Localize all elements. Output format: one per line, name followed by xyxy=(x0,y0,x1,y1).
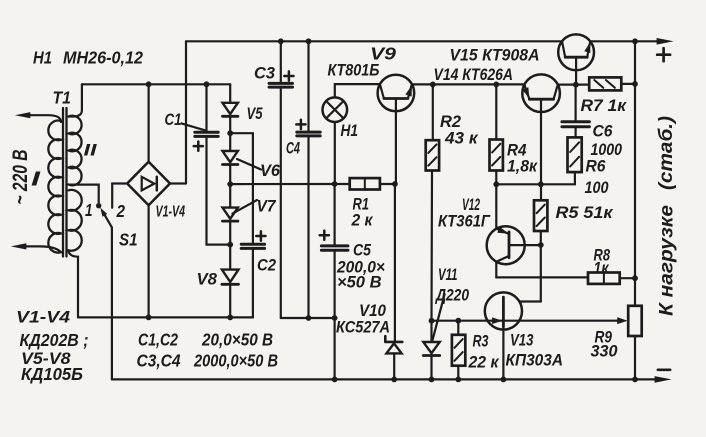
svg-text:R5 51к: R5 51к xyxy=(556,203,614,222)
+ output label xyxy=(657,48,670,61)
node switch contact 1 xyxy=(96,203,101,208)
wire C5 top lead xyxy=(334,184,336,246)
wire V13 gate line xyxy=(432,320,619,322)
svg-text:R6: R6 xyxy=(586,157,606,176)
switch S1 arm arrowhead xyxy=(100,208,107,217)
node R1 right / V9 base junction xyxy=(392,181,398,187)
svg-text:R3: R3 xyxy=(473,332,489,351)
wire mains input top lead xyxy=(29,115,61,122)
svg-text:С4: С4 xyxy=(286,139,300,158)
wire H1 top to V9 collector xyxy=(335,84,380,97)
svg-text:КД105Б: КД105Б xyxy=(21,364,83,384)
wire C6 to R6 xyxy=(574,127,576,138)
node V12 base / R5 / V13 drain xyxy=(538,242,544,248)
svg-text:V1-V4: V1-V4 xyxy=(156,204,186,221)
svg-text:КТ801Б: КТ801Б xyxy=(328,61,380,80)
wire V7 anode xyxy=(229,184,231,208)
node R8 / output column xyxy=(632,275,638,281)
switch S1 arm xyxy=(104,213,112,227)
capacitor C1 xyxy=(195,132,218,136)
wire AC line from secondary to V5 string xyxy=(82,83,230,85)
zener V10 KS527A xyxy=(385,336,402,342)
wire bridge bottom corner to negative line xyxy=(148,205,150,317)
wire C1 bottom lead xyxy=(207,136,231,244)
svg-text:1: 1 xyxy=(85,200,93,220)
node V7-V8 junction / C1 return xyxy=(227,242,233,248)
svg-text:2: 2 xyxy=(116,201,126,221)
wire bottom negative rail xyxy=(112,378,657,380)
transformer T1 secondary winding II lower xyxy=(69,190,82,251)
node bottom rail V13 xyxy=(501,377,507,383)
wire C5 riser to negative rail xyxy=(334,318,336,379)
svg-text:V15 КТ908А: V15 КТ908А xyxy=(450,46,540,65)
wire secondary bottom lead xyxy=(69,250,79,317)
wire V13 source to negative rail xyxy=(502,327,504,380)
svg-text:С2: С2 xyxy=(257,256,276,275)
wire C5 bottom lead xyxy=(334,250,336,318)
wire V12 collector down xyxy=(495,262,497,278)
wire R4 top lead xyxy=(495,84,497,139)
transformer T1 secondary winding II upper xyxy=(69,116,82,186)
bridge rectifier V1-V4 diamond xyxy=(127,162,170,206)
svg-text:V7: V7 xyxy=(257,197,277,216)
V7 label leader xyxy=(233,200,258,214)
D220 label leader xyxy=(433,294,445,340)
- output label xyxy=(658,368,670,371)
wire R6 bottom to base node line xyxy=(496,172,575,184)
node negative line / bridge bottom xyxy=(146,315,152,321)
transistor V14 KT626A xyxy=(522,74,560,112)
svg-text:V5: V5 xyxy=(247,104,263,123)
node R7 / output column xyxy=(632,81,638,87)
svg-text:(стаб.): (стаб.) xyxy=(655,116,677,190)
node V6-V7 junction xyxy=(227,181,233,187)
wire V6 anode xyxy=(229,133,231,151)
svg-text:МН26-0,12: МН26-0,12 xyxy=(63,48,143,68)
wire switch S1 common down to negative rail xyxy=(111,227,113,379)
V6 label leader xyxy=(237,159,261,170)
svg-text:I: I xyxy=(31,169,41,191)
svg-text:V12: V12 xyxy=(462,195,480,214)
wire V13 drain riser xyxy=(540,245,542,302)
capacitor C6 xyxy=(562,122,590,127)
C1 label leader xyxy=(182,123,205,130)
svg-text:КТ361Г: КТ361Г xyxy=(438,213,491,231)
wire V5 cathode to node xyxy=(229,116,231,133)
svg-text:×50 В: ×50 В xyxy=(337,274,382,292)
svg-text:С5: С5 xyxy=(353,241,371,260)
wire H1 bottom lead xyxy=(334,122,336,184)
svg-text:V1-V4: V1-V4 xyxy=(16,308,71,327)
diode V6 xyxy=(223,151,238,162)
svg-text:20,0×50 В: 20,0×50 В xyxy=(201,330,273,350)
wire V7 cathode to node xyxy=(229,221,231,245)
diode V11 D220 xyxy=(423,342,439,353)
wire R7 right lead xyxy=(621,83,635,85)
svg-text:~ 220 В: ~ 220 В xyxy=(9,150,32,205)
node bottom rail V10 xyxy=(391,377,397,383)
transistor V9 KT801B xyxy=(378,75,415,112)
wire output column xyxy=(634,41,636,306)
diode V8 xyxy=(222,270,239,282)
wire R2 top lead xyxy=(432,84,434,140)
wire V11 cathode to negative rail xyxy=(430,356,432,380)
wire V6-V7 junction to R1 line xyxy=(230,183,350,185)
svg-text:2 к: 2 к xyxy=(351,211,374,230)
svg-text:Д220: Д220 xyxy=(434,287,469,305)
svg-text:43 к: 43 к xyxy=(444,129,479,148)
resistor R7 xyxy=(589,77,621,90)
svg-text:V13: V13 xyxy=(510,331,534,350)
transformer T1 primary winding I xyxy=(48,121,61,253)
R9 wiper arrowhead xyxy=(617,317,628,324)
wire R2 bottom long lead xyxy=(430,171,433,321)
wire V10 anode to negative rail xyxy=(393,353,395,379)
node AC line / bridge top xyxy=(146,81,152,87)
svg-text:С1: С1 xyxy=(165,110,182,129)
C2 plus sign xyxy=(256,231,265,240)
wire R4 bottom lead xyxy=(495,171,497,185)
svg-text:С3: С3 xyxy=(254,64,276,83)
wire R9 bottom lead xyxy=(634,336,636,379)
svg-text:22 к: 22 к xyxy=(468,353,500,372)
svg-text:330: 330 xyxy=(591,343,619,361)
wire secondary top lead to AC line xyxy=(69,84,82,116)
capacitor C4 xyxy=(297,132,320,136)
wire C4 top lead xyxy=(307,41,309,132)
wire V15 base down to node xyxy=(575,57,577,84)
node AC line / C1 top xyxy=(204,81,210,87)
resistor R6 xyxy=(568,137,582,172)
svg-text:Н1: Н1 xyxy=(341,121,359,140)
svg-text:1к: 1к xyxy=(594,259,610,278)
svg-text:100: 100 xyxy=(585,179,610,197)
wire V14 collector to V15 base node xyxy=(558,83,589,85)
svg-text:С6: С6 xyxy=(593,122,613,141)
wire V8 anode xyxy=(229,245,231,270)
svg-text:V14 КТ626А: V14 КТ626А xyxy=(434,65,514,84)
wire V5 anode xyxy=(229,84,231,103)
diode V5 xyxy=(223,103,238,114)
wire V6 cathode to node xyxy=(229,165,231,185)
wire C4 bottom lead xyxy=(307,136,309,318)
wire filter ground segment xyxy=(281,317,335,319)
C5 plus sign xyxy=(320,231,329,240)
wire bridge right corner to top rail riser xyxy=(170,41,186,183)
svg-text:КП303А: КП303А xyxy=(506,352,564,370)
wire V10 cathode lead xyxy=(394,184,396,342)
node top rail C4 xyxy=(306,38,312,44)
diode V7 xyxy=(223,208,238,219)
wire C6 top lead xyxy=(574,85,576,122)
wire C3 top lead xyxy=(280,41,282,83)
svg-text:Н1: Н1 xyxy=(33,48,52,68)
wire secondary tap to contact 1 xyxy=(70,185,99,203)
node V13 gate / R2 / V11 xyxy=(429,318,435,324)
wire top positive rail xyxy=(186,40,562,42)
wire R5 bottom lead xyxy=(540,231,542,245)
svg-text:1,8к: 1,8к xyxy=(507,157,538,176)
C1 plus sign xyxy=(194,142,203,151)
wire R1 right lead xyxy=(380,183,395,185)
svg-text:С1,С2: С1,С2 xyxy=(138,330,178,350)
wire mains input bottom lead xyxy=(25,246,61,252)
node top rail C3 xyxy=(278,38,284,44)
wire V12 base to node xyxy=(509,244,541,246)
wire V9 emitter line to V14 xyxy=(412,83,525,85)
mains top arrow xyxy=(15,112,30,118)
node ground segment C5 riser xyxy=(332,315,338,321)
transformer T1 core xyxy=(63,108,67,257)
node R4 / R5 line left xyxy=(493,181,499,187)
wire switch contact 2 to bridge left corner xyxy=(112,184,127,208)
capacitor C2 xyxy=(241,244,264,248)
wire V11 anode lead xyxy=(430,321,432,342)
node gate line R3 xyxy=(455,318,461,324)
resistor R8 xyxy=(588,273,620,284)
node H1/C5 junction xyxy=(332,181,338,187)
wire V9 base down to node xyxy=(395,99,397,185)
capacitor C3 xyxy=(269,83,292,87)
svg-text:2000,0×50 В: 2000,0×50 В xyxy=(193,351,278,371)
C3 plus sign xyxy=(284,71,293,80)
svg-text:Т1: Т1 xyxy=(53,88,72,108)
wire bridge top corner riser xyxy=(148,84,150,162)
svg-text:V8: V8 xyxy=(197,270,218,289)
resistor R3 xyxy=(452,335,465,366)
potentiometer R9 xyxy=(628,306,642,336)
wire R8 right lead xyxy=(620,277,635,279)
node emitter line R4 xyxy=(493,82,499,88)
svg-text:V6: V6 xyxy=(260,161,281,180)
wire C2 bottom lead xyxy=(252,248,254,317)
node + output junction xyxy=(632,38,638,44)
node emitter line R2 xyxy=(430,82,436,88)
wire C1 top lead xyxy=(205,84,207,132)
svg-text:С3,С4: С3,С4 xyxy=(137,351,181,371)
svg-text:II: II xyxy=(84,141,99,160)
svg-text:КД202В ;: КД202В ; xyxy=(20,330,89,350)
resistor R1 xyxy=(350,178,380,189)
resistor R5 xyxy=(534,200,547,231)
V13 gate arrowhead xyxy=(492,317,503,324)
lamp H1 xyxy=(323,97,348,122)
wire rectifier negative line xyxy=(78,316,253,318)
wire top rail V15 emitter to + terminal xyxy=(590,40,659,42)
node bottom rail V11 xyxy=(429,377,435,383)
node negative line / V8 cathode xyxy=(227,315,233,321)
mains bottom arrow xyxy=(11,243,26,249)
wire V13 drain horizontal xyxy=(503,300,540,302)
node V5-V6 junction xyxy=(227,130,233,136)
node R4 / R5 line mid xyxy=(538,181,544,187)
resistor R2 xyxy=(426,140,439,170)
wire V8 cathode to negative line xyxy=(229,285,231,318)
wire R3 top lead xyxy=(457,321,459,335)
node bottom rail R3 xyxy=(455,377,461,383)
svg-text:К нагрузке: К нагрузке xyxy=(656,205,678,316)
+ output arrow xyxy=(657,38,674,45)
- output arrow xyxy=(655,376,672,383)
svg-text:V10: V10 xyxy=(359,301,386,320)
wire C3 bottom lead xyxy=(280,87,282,318)
node V15 base / V14 / R7 / C6 xyxy=(573,82,579,88)
transistor V13 KP303A xyxy=(485,292,522,329)
node bottom rail R9 xyxy=(632,377,638,383)
wire V12 collector to R8 xyxy=(496,276,588,278)
resistor R4 xyxy=(490,140,503,171)
wire R4 node to V12 emitter xyxy=(495,184,497,228)
svg-text:V11: V11 xyxy=(438,265,458,284)
svg-text:R7 1к: R7 1к xyxy=(581,96,628,115)
C4 plus sign xyxy=(296,120,305,129)
node bottom rail C5 xyxy=(332,377,338,383)
wire bypass V5/V6 junction to C2 xyxy=(230,133,253,244)
svg-text:S1: S1 xyxy=(119,230,138,250)
wire V14 base down xyxy=(540,99,542,200)
svg-text:КС527А: КС527А xyxy=(336,319,390,337)
transistor V12 KT361G xyxy=(487,226,525,264)
capacitor C5 xyxy=(321,246,348,250)
wire R3 bottom lead xyxy=(457,366,459,380)
node ground segment C4 xyxy=(306,315,312,321)
transistor V15 KT908A xyxy=(558,34,594,70)
